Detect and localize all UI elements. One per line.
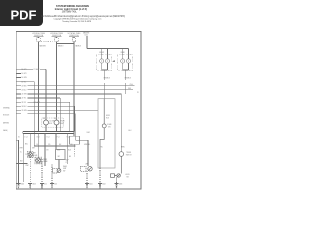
svg-text:16 GRN: 16 GRN bbox=[22, 77, 27, 79]
svg-text:Thursday, December 28, 2000 1: Thursday, December 28, 2000 11:46PM bbox=[62, 20, 91, 23]
svg-text:GLOVE: GLOVE bbox=[49, 121, 54, 123]
svg-text:BLK: BLK bbox=[106, 117, 109, 119]
svg-text:1997 BMW 740iL: 1997 BMW 740iL bbox=[62, 12, 78, 14]
svg-text:LT: LT bbox=[66, 162, 68, 164]
svg-text:BLU: BLU bbox=[25, 144, 28, 146]
svg-text:MODULE: MODULE bbox=[3, 115, 9, 117]
svg-text:(BEHIND: (BEHIND bbox=[3, 123, 9, 125]
svg-text:1C: 1C bbox=[20, 152, 22, 154]
svg-text:GRN/YEL: GRN/YEL bbox=[84, 144, 91, 146]
svg-text:DOME: DOME bbox=[107, 124, 111, 126]
svg-text:G403: G403 bbox=[119, 184, 123, 186]
svg-text:TRUNK: TRUNK bbox=[126, 152, 131, 154]
svg-text:FRT: FRT bbox=[33, 153, 36, 155]
svg-text:DOME: DOME bbox=[33, 155, 37, 157]
svg-text:C100: C100 bbox=[129, 84, 133, 86]
svg-text:WHT: WHT bbox=[26, 165, 29, 167]
svg-text:S302: S302 bbox=[87, 132, 91, 134]
svg-text:G303: G303 bbox=[32, 184, 36, 186]
svg-text:HOOD: HOOD bbox=[125, 174, 129, 176]
svg-text:2C: 2C bbox=[25, 154, 27, 156]
svg-text:S1: S1 bbox=[18, 137, 20, 139]
svg-text:G402: G402 bbox=[102, 184, 106, 186]
svg-text:BRN/BLK: BRN/BLK bbox=[104, 78, 110, 80]
svg-text:WHT: WHT bbox=[20, 148, 23, 150]
svg-text:12 GRY: 12 GRY bbox=[22, 69, 27, 71]
svg-text:Interior Light Circuit (1 of 2: Interior Light Circuit (1 of 2) bbox=[55, 7, 87, 11]
svg-text:7 C2: 7 C2 bbox=[57, 136, 60, 138]
svg-text:BRN/: BRN/ bbox=[106, 115, 110, 117]
svg-text:G26: G26 bbox=[54, 184, 57, 186]
svg-text:BRN: BRN bbox=[57, 149, 60, 151]
svg-text:RD: RD bbox=[48, 144, 50, 146]
svg-text:BR: BR bbox=[58, 156, 60, 158]
svg-text:G25: G25 bbox=[44, 184, 47, 186]
svg-text:22 BLU: 22 BLU bbox=[22, 90, 27, 92]
svg-text:C100: C100 bbox=[84, 35, 88, 37]
svg-text:BU: BU bbox=[59, 144, 61, 146]
svg-text:14: 14 bbox=[36, 144, 38, 146]
svg-text:G401: G401 bbox=[89, 184, 93, 186]
svg-text:DOME: DOME bbox=[43, 161, 47, 163]
svg-text:BOX: BOX bbox=[49, 123, 52, 125]
svg-text:BLU: BLU bbox=[129, 130, 132, 132]
svg-text:1 C2: 1 C2 bbox=[25, 136, 28, 138]
svg-text:GRY: GRY bbox=[32, 148, 35, 150]
svg-text:BRN: BRN bbox=[121, 147, 124, 149]
svg-text:BLK: BLK bbox=[68, 149, 71, 151]
svg-text:RED: RED bbox=[128, 88, 131, 90]
svg-text:LEFT: LEFT bbox=[85, 164, 89, 166]
svg-text:FRONT: FRONT bbox=[99, 52, 104, 54]
svg-text:30 BLU: 30 BLU bbox=[22, 106, 27, 108]
svg-text:BLK: BLK bbox=[20, 161, 23, 163]
svg-text:GN: GN bbox=[70, 144, 72, 146]
svg-text:INT: INT bbox=[54, 118, 56, 120]
svg-text:14 GRY: 14 GRY bbox=[22, 73, 27, 75]
svg-text:TRUNK: TRUNK bbox=[60, 121, 65, 123]
svg-text:PDF: PDF bbox=[11, 7, 37, 22]
svg-text:24 GRN: 24 GRN bbox=[22, 94, 27, 96]
svg-text:32 GRN: 32 GRN bbox=[22, 110, 27, 112]
svg-text:YEL: YEL bbox=[100, 147, 103, 149]
svg-text:LIGHT: LIGHT bbox=[60, 123, 64, 125]
svg-text:26 YEL: 26 YEL bbox=[22, 98, 27, 100]
svg-text:BK: BK bbox=[69, 156, 71, 158]
svg-text:P1: P1 bbox=[137, 92, 139, 94]
svg-text:18 YEL: 18 YEL bbox=[22, 81, 27, 83]
svg-text:BRN/BLK: BRN/BLK bbox=[125, 78, 131, 80]
svg-text:INT: INT bbox=[43, 118, 45, 120]
svg-text:5 C2: 5 C2 bbox=[47, 136, 50, 138]
svg-text:G302: G302 bbox=[21, 184, 25, 186]
svg-text:SWITCH: SWITCH bbox=[126, 155, 132, 157]
svg-text:20 RED: 20 RED bbox=[22, 85, 27, 87]
